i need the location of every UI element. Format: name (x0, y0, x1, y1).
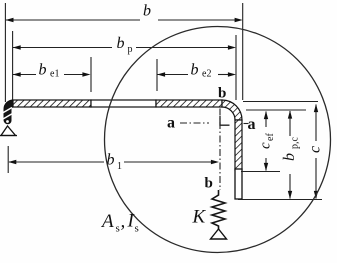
dimension b_p arrowheads (13, 45, 21, 49)
extension line right outer (x=242.7) (242, 3, 244, 100)
extension line left inner (x=12.6) (12, 31, 14, 100)
dimension c_ef line (265, 112, 267, 171)
extension line right inner (x=236) (235, 35, 237, 100)
pin support base line left (0, 135, 17, 137)
svg-text:a: a (167, 115, 175, 132)
dimension c line (315, 105, 317, 199)
curl hatch highlights (3, 108, 13, 114)
left web bend curl (4, 100, 13, 124)
label c rotated (307, 146, 324, 153)
svg-text:b: b (117, 35, 125, 52)
label b_pc rotated (281, 137, 301, 162)
label c_ef rotated (258, 133, 277, 149)
dimension b_1 arrowheads (8, 160, 16, 164)
extension line lip top level (y=110) (246, 109, 306, 111)
section line a-a dash right (244, 123, 249, 125)
tick b_e2 left (x=157) (156, 59, 158, 91)
tick b_1 left (x=8.2) (7, 146, 9, 173)
extension line left outer (x=5.4) (4, 3, 6, 102)
svg-text:c: c (258, 142, 274, 149)
detail circle (105, 27, 331, 253)
svg-text:s: s (116, 223, 120, 235)
dimension b_e1 line (13, 74, 84, 76)
section line b-b dash-dot vertical (219, 109, 221, 191)
dimension b_1 line (9, 161, 212, 163)
svg-text:p,c: p,c (290, 137, 301, 150)
dimension b_e1 arrowheads (13, 72, 21, 76)
svg-text:1: 1 (117, 161, 122, 172)
section line a-a dash-dot left (180, 122, 209, 124)
svg-text:A: A (100, 211, 114, 232)
dimension b line (6, 19, 235, 21)
pin support triangle left (1, 126, 16, 136)
svg-text:b: b (143, 3, 151, 20)
dimension c arrowheads (314, 104, 318, 112)
pin support triangle bottom (211, 229, 227, 239)
corner bend flange-to-lip (222, 100, 242, 120)
dimension b_pc line (289, 111, 291, 199)
dimension b_pc arrowheads (288, 111, 292, 119)
svg-text:b: b (281, 153, 298, 161)
svg-text:b: b (218, 86, 226, 102)
flange non-effective white part (91, 100, 156, 107)
dimension c_ef arrowheads (264, 111, 268, 119)
svg-text:c: c (307, 146, 324, 153)
svg-text:b: b (39, 62, 47, 79)
lip hatched effective part c_ef (235, 120, 242, 170)
flange hatched effective part be2 (156, 100, 222, 107)
extension line lip bottom (y=199.5) (238, 199, 322, 201)
svg-text:e1: e1 (50, 69, 59, 80)
svg-text:e2: e2 (202, 69, 211, 80)
extension line c_ef bottom (y=171.5) (241, 171, 280, 173)
spring K (212, 190, 225, 229)
flange hatched effective part be1 (13, 100, 91, 107)
lip non-effective white part (235, 169, 242, 199)
dimension b_e2 line (157, 74, 229, 76)
pin circle left support (6, 120, 10, 124)
svg-text:b: b (191, 62, 199, 79)
tick b_e1 right (x=91) (90, 57, 92, 92)
dimension b_p line (13, 47, 229, 49)
extension line flange top level right (y=101.5) (243, 101, 318, 103)
svg-text:ef: ef (265, 133, 276, 141)
svg-text:p: p (128, 44, 133, 55)
svg-text:,: , (121, 211, 126, 232)
svg-text:b: b (205, 176, 213, 192)
svg-text:s: s (135, 223, 139, 235)
svg-text:K: K (192, 207, 207, 228)
svg-text:a: a (248, 116, 256, 133)
junction corner mark (220, 116, 230, 125)
dimension b arrowheads (5, 18, 13, 22)
dimension b_e2 arrowheads (157, 72, 165, 76)
